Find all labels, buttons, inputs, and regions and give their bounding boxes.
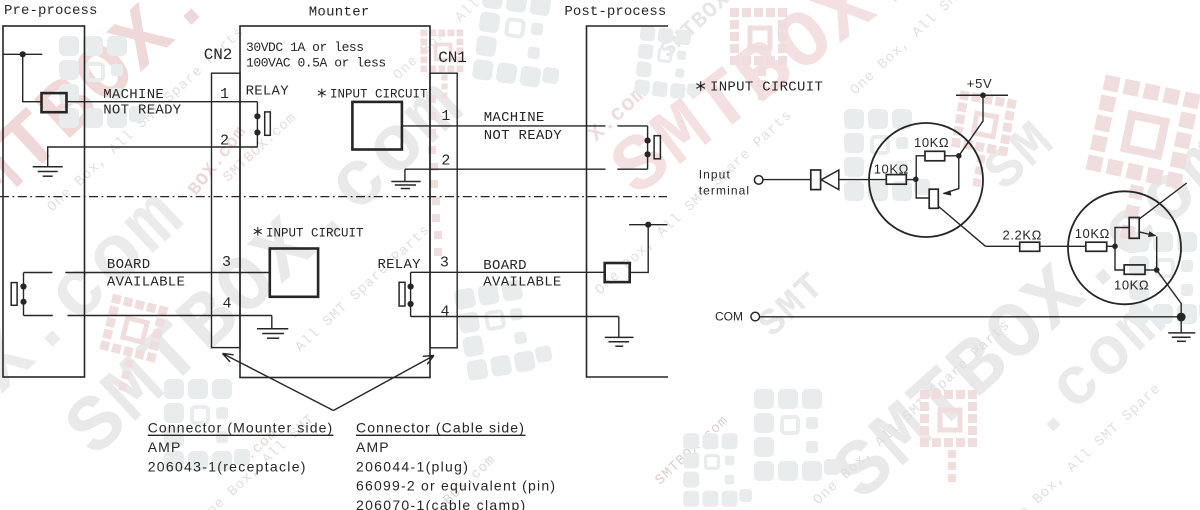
pin 1 CN1: [441, 108, 450, 125]
label 2.2K ohm: [1003, 228, 1042, 243]
connector CN2 box: [212, 73, 241, 347]
Post-process box (open right): [587, 26, 669, 377]
svg-text:Post-process: Post-process: [564, 4, 666, 20]
base wire down Q2: [1115, 246, 1124, 270]
ground stem mounter bottom: [271, 316, 273, 329]
svg-text:NOT READY: NOT READY: [484, 128, 563, 144]
svg-text:terminal: terminal: [699, 183, 750, 197]
ground stem mounter top: [404, 169, 406, 181]
wire pre-process top rail: [3, 53, 42, 55]
pin 3 CN1: [440, 255, 449, 272]
junction dot pre-process: [20, 51, 26, 57]
svg-text:CN1: CN1: [438, 49, 467, 67]
Pre-process box: [3, 26, 85, 377]
label MACHINE: [103, 87, 164, 103]
wire R1 to base node: [906, 179, 916, 181]
svg-text:1: 1: [220, 86, 229, 103]
protection box: [811, 170, 821, 190]
arrow to CN1 bottom: [333, 356, 434, 411]
svg-text:4: 4: [440, 303, 449, 320]
relay coil post-process: [654, 136, 660, 159]
Post-process label: [564, 4, 666, 20]
Mounter box: [240, 26, 430, 378]
node dot Q1 base: [913, 177, 919, 183]
ground stem post-process: [618, 317, 620, 338]
label Input terminal: [699, 168, 750, 198]
wire R5 to R3: [1040, 245, 1086, 247]
svg-text:AMP: AMP: [356, 439, 390, 455]
svg-text:INPUT CIRCUIT: INPUT CIRCUIT: [710, 80, 823, 96]
label 10K ohm R3: [1075, 226, 1110, 241]
base wire up Q2: [1115, 228, 1129, 247]
+5V supply rail: [956, 94, 1008, 96]
annotation AMP left: [148, 439, 182, 455]
svg-text:206070-1(cable clamp): 206070-1(cable clamp): [356, 497, 527, 510]
annotation connector mounter side title: [148, 420, 334, 436]
node dot Q2 base: [1112, 244, 1118, 250]
svg-text:30VDC 1A or less: 30VDC 1A or less: [246, 40, 364, 55]
wire terminal to protection box: [763, 179, 811, 181]
svg-text:Connector (Mounter side): Connector (Mounter side): [148, 420, 334, 436]
transistor Q2 circle: [1068, 191, 1181, 304]
relay coil pre-process: [11, 283, 17, 306]
ground mounter top: [391, 182, 420, 189]
node dot Q2 emitter: [1154, 267, 1160, 273]
rating label 100VAC: [246, 55, 386, 70]
wire pin4 to ground (with connector gap): [24, 315, 272, 317]
svg-text:AMP: AMP: [148, 439, 182, 455]
junction dot COM: [1177, 313, 1186, 322]
ground COM: [1168, 333, 1195, 341]
annotation 66099-2 pin: [356, 478, 556, 494]
junction dot post-process: [645, 222, 651, 228]
pin 2 CN2: [220, 133, 229, 150]
relay contact post-process: [645, 126, 651, 169]
wire R3 to base node Q2: [1107, 245, 1115, 247]
svg-text:INPUT CIRCUIT: INPUT CIRCUIT: [330, 88, 428, 102]
transistor Q1 circle: [869, 123, 983, 237]
pin 2 CN1: [441, 152, 450, 169]
wire down from junction: [23, 54, 42, 101]
relay label mounter bottom: [378, 257, 422, 273]
wire BOARD AVAILABLE to input circuit (with connector gap): [24, 272, 270, 274]
label NOT READY: [103, 103, 182, 119]
base-emitter network Q1: [916, 156, 929, 198]
svg-text:AVAILABLE: AVAILABLE: [107, 275, 185, 291]
wire input circuit to CN1 pin1 (machine not ready out): [402, 125, 648, 127]
annotation 206043-1 receptacle: [148, 458, 307, 474]
annotation 206044-1 plug: [356, 458, 469, 474]
+5V label: [967, 76, 993, 91]
resistor R1 (base series 10K): [886, 175, 906, 185]
svg-text:Connector (Cable side): Connector (Cable side): [356, 420, 525, 436]
input circuit box mounter bottom: [270, 249, 318, 297]
emitter arrow Q1: [943, 156, 959, 196]
svg-text:RELAY: RELAY: [246, 84, 290, 100]
input circuit label mounter bottom: [254, 226, 364, 240]
wire CN1 pin3 BOARD AVAILABLE: [411, 271, 605, 273]
svg-text:10KΩ: 10KΩ: [1075, 226, 1110, 241]
wire diode to resistor R1: [839, 179, 887, 181]
svg-text:CN2: CN2: [204, 46, 233, 64]
svg-text:Input: Input: [699, 168, 731, 182]
COM terminal circle: [751, 312, 760, 321]
wire R4 to emitter node Q2: [1145, 269, 1157, 271]
Pre-process label: [4, 3, 98, 19]
Mounter label: [309, 4, 370, 20]
pin 4 CN2: [222, 295, 231, 312]
label NOT READY right: [484, 128, 563, 144]
COM rail: [760, 316, 1181, 318]
annotation AMP right: [356, 439, 390, 455]
input terminal circle: [754, 176, 763, 185]
label AVAILABLE left: [107, 275, 185, 291]
arrow to CN2 bottom: [223, 354, 334, 411]
label MACHINE right: [484, 110, 545, 126]
ground pre-process top: [33, 167, 63, 177]
node dot Q1 emitter: [956, 153, 962, 159]
ground stem COM: [1180, 317, 1182, 333]
input circuit detail title: [696, 80, 823, 96]
resistor R5 (2.2K coupling): [1020, 242, 1040, 251]
svg-text:10KΩ: 10KΩ: [914, 135, 949, 150]
wire CN1 pin2 to post relay: [405, 168, 648, 170]
label BOARD left: [107, 257, 151, 273]
svg-text:4: 4: [222, 295, 231, 312]
label BOARD right: [483, 258, 527, 274]
svg-text:206044-1(plug): 206044-1(plug): [356, 458, 469, 474]
svg-text:2.2KΩ: 2.2KΩ: [1003, 228, 1042, 243]
svg-text:COM: COM: [715, 310, 743, 324]
ground mounter bottom: [257, 329, 288, 339]
transistor Q2 base region: [1129, 218, 1139, 239]
wire post-process top rail: [629, 224, 667, 226]
pin 3 CN2: [222, 254, 231, 271]
wire MACHINE NOT READY to CN2 pin1: [67, 101, 258, 103]
input circuit label mounter top: [318, 88, 428, 102]
svg-text:2: 2: [441, 152, 450, 169]
wire board box to post top rail: [630, 225, 649, 273]
load box pre-process (machine contact): [42, 93, 67, 112]
svg-text:1: 1: [441, 108, 450, 125]
diode triangle: [821, 170, 839, 190]
svg-text:MACHINE: MACHINE: [103, 87, 164, 103]
pin 1 CN2: [220, 86, 229, 103]
svg-text:100VAC 0.5A or less: 100VAC 0.5A or less: [246, 55, 386, 70]
svg-text:Mounter: Mounter: [309, 4, 370, 20]
label AVAILABLE right: [483, 275, 561, 291]
svg-text:MACHINE: MACHINE: [484, 110, 545, 126]
relay contact mounter bottom: [408, 272, 414, 316]
collector line Q1: [939, 207, 986, 247]
wire +5V to Q1 emitter node: [959, 95, 983, 156]
connector CN2 label: [204, 46, 233, 64]
emitter arrow Q2: [1139, 231, 1157, 267]
collector line Q2: [1139, 183, 1187, 220]
junction dot +5V: [980, 92, 986, 98]
load box post-process (board contact): [605, 263, 630, 282]
svg-text:66099-2 or equivalent (pin): 66099-2 or equivalent (pin): [356, 478, 556, 494]
relay label mounter top: [246, 84, 290, 100]
label 10K ohm R1: [874, 162, 909, 177]
svg-text:AVAILABLE: AVAILABLE: [483, 275, 561, 291]
label 10K ohm R4: [1114, 278, 1149, 293]
svg-text:+5V: +5V: [967, 76, 993, 91]
svg-text:RELAY: RELAY: [378, 257, 422, 273]
svg-text:Pre-process: Pre-process: [4, 3, 98, 19]
label COM: [715, 310, 743, 324]
label 10K ohm R2: [914, 135, 949, 150]
svg-text:BOARD: BOARD: [107, 257, 151, 273]
wire Q1 collector to R5: [986, 245, 1020, 247]
annotation connector cable side title: [356, 420, 526, 436]
resistor R3 (base series 10K): [1086, 242, 1107, 251]
wire R2 to emitter node: [945, 155, 956, 157]
annotation 206070-1 cable clamp: [356, 497, 527, 510]
svg-text:NOT READY: NOT READY: [103, 103, 182, 119]
connector CN1 box: [430, 73, 457, 348]
resistor R4 (base-emitter 10K): [1124, 265, 1145, 274]
relay coil mounter bottom: [399, 282, 405, 306]
svg-text:206043-1(receptacle): 206043-1(receptacle): [148, 458, 307, 474]
relay contact mounter top: [254, 102, 260, 147]
relay coil mounter top: [265, 112, 271, 135]
transistor Q1 base region: [929, 189, 938, 208]
resistor R2 (base-emitter 10K): [925, 151, 945, 161]
connector CN1 label: [438, 49, 467, 67]
wire CN2 pin2 to ground: [48, 147, 258, 167]
rating label 30VDC: [246, 40, 364, 55]
svg-text:10KΩ: 10KΩ: [1114, 278, 1149, 293]
wire CN1 pin4 to post ground: [411, 316, 619, 318]
pin 4 CN1: [440, 303, 449, 320]
svg-text:3: 3: [222, 254, 231, 271]
ground post-process: [605, 337, 634, 346]
svg-text:BOARD: BOARD: [483, 258, 527, 274]
svg-text:INPUT CIRCUIT: INPUT CIRCUIT: [266, 226, 364, 240]
wire Q2 emitter to COM: [1157, 270, 1182, 317]
input circuit box mounter top: [352, 102, 402, 150]
boundary dash-dot line: [0, 196, 667, 198]
svg-text:3: 3: [440, 255, 449, 272]
relay contact pre-process: [20, 273, 26, 316]
